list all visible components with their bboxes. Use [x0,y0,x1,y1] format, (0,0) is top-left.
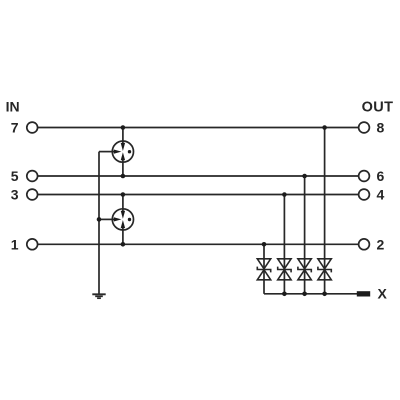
wire GDT1 top lead [122,128,124,145]
junction bus / V3 [302,292,307,297]
terminal 1 [27,239,38,250]
wire drop from line 3-4 to diode V2 [283,195,285,294]
svg-text:6: 6 [377,168,385,184]
terminal 8 [359,122,370,133]
terminal 4 [359,189,370,200]
junction line1-2 / GDT2 [121,242,126,247]
svg-text:7: 7 [11,120,19,136]
wire drop from line 5-6 to diode V3 [304,176,306,294]
junction line5-6 / drop V3 [302,174,307,179]
terminal X pad [357,291,370,296]
svg-text:8: 8 [377,120,385,136]
wire GDT2 left stub [99,218,115,220]
suppressor diode V2 [278,259,291,280]
junction bus / V4 [322,292,327,297]
terminal 6 [359,171,370,182]
wire line 1-2 [38,243,359,245]
wire GDT1 bottom lead [122,160,124,177]
wire line 3-4 [38,194,359,196]
svg-text:3: 3 [11,187,19,203]
svg-text:IN: IN [6,99,20,115]
wire drop from line 7-8 to diode V4 [324,128,326,294]
wire ground vertical [98,152,100,294]
wire GDT2 bottom lead [122,227,124,244]
gas discharge tube F2 [112,209,133,230]
wire line 7-8 [38,127,359,129]
junction ground line / GDT2 stub [97,217,102,222]
terminal 2 [359,239,370,250]
junction bus / V2 [282,292,287,297]
junction line5-6 / GDT1 [121,174,126,179]
svg-text:OUT: OUT [362,100,394,116]
gas discharge tube F1 [112,141,133,162]
junction line3-4 / drop V2 [282,192,287,197]
svg-text:4: 4 [377,187,385,203]
svg-text:5: 5 [11,168,19,184]
svg-text:1: 1 [11,236,19,252]
terminal 5 [27,171,38,182]
wire line 5-6 [38,175,359,177]
junction line7-8 / GDT1 [121,125,126,130]
wire GDT1 left stub [99,151,115,153]
terminal 7 [27,122,38,133]
suppressor diode V4 [318,259,331,280]
wire GDT2 top lead [122,195,124,212]
junction line1-2 / drop V1 [262,242,267,247]
wire drop from line 1-2 to diode V1 [263,244,265,293]
wire bottom bus to X [264,293,358,295]
terminal 3 [27,189,38,200]
junction line7-8 / drop V4 [322,125,327,130]
ground [92,294,105,298]
svg-text:X: X [378,286,388,302]
suppressor diode V3 [298,259,311,280]
svg-text:2: 2 [377,236,385,252]
junction line3-4 / GDT2 [121,192,126,197]
suppressor diode V1 [257,259,270,280]
